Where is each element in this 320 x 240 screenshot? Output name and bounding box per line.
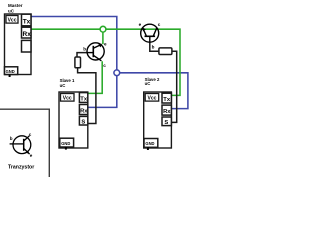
- svg-text:Rx: Rx: [23, 31, 32, 38]
- wire blue main: [31, 17, 117, 108]
- svg-text:GND: GND: [6, 69, 15, 74]
- svg-text:e: e: [139, 22, 142, 27]
- node: blue junction: [114, 70, 120, 76]
- pin Tx slave1: [79, 93, 87, 103]
- transistor Q2 (right NPN, rotated): [141, 24, 159, 42]
- svg-text:Master: Master: [8, 3, 23, 8]
- svg-text:Vcc: Vcc: [148, 96, 157, 102]
- svg-text:e: e: [104, 42, 107, 47]
- pin Vcc slave2: [145, 94, 159, 102]
- svg-text:GND: GND: [145, 141, 154, 146]
- pin S slave1: [79, 116, 87, 125]
- svg-text:Vcc: Vcc: [8, 18, 17, 24]
- svg-text:Tranzystor: Tranzystor: [8, 164, 34, 170]
- svg-text:e: e: [30, 153, 33, 158]
- pin GND slave1: [60, 138, 74, 147]
- Slave 2 uC box: [144, 92, 172, 148]
- wire: blue bus Tx of master to slave Rx pins: [31, 17, 188, 109]
- svg-text:b: b: [83, 46, 86, 51]
- wire: green bus Rx of master / transistor collectors: [31, 29, 180, 95]
- pin GND master: [5, 67, 18, 75]
- svg-text:Vcc: Vcc: [63, 96, 72, 102]
- svg-text:S: S: [81, 119, 85, 125]
- pin Tx slave2: [162, 93, 171, 103]
- pin Vcc slave1: [61, 94, 75, 102]
- pin Tx master: [22, 14, 32, 26]
- node: green junction: [100, 26, 106, 32]
- gnd stub master: [9, 75, 11, 78]
- pin Vcc master: [6, 16, 18, 24]
- transistor Q3 (legend NPN): [10, 136, 31, 154]
- gnd stub slave2: [147, 147, 149, 150]
- wire blue branch to slave 2: [117, 73, 188, 109]
- pin S slave2: [162, 117, 171, 126]
- svg-text:c: c: [103, 63, 106, 68]
- svg-text:Tx: Tx: [23, 19, 31, 26]
- transistor Q1 (middle NPN): [87, 43, 104, 61]
- svg-text:uC: uC: [145, 81, 151, 86]
- svg-text:Rx: Rx: [80, 109, 88, 115]
- legend box: [0, 109, 49, 177]
- svg-text:uC: uC: [60, 83, 66, 88]
- svg-text:S: S: [164, 120, 168, 126]
- wire green main master Rx through Q2 to slave2 Tx: [31, 29, 180, 95]
- svg-text:c: c: [158, 22, 161, 27]
- pin Rx master: [22, 27, 32, 38]
- svg-text:b: b: [10, 136, 13, 141]
- svg-text:Rx: Rx: [163, 109, 171, 115]
- pin GND slave2: [144, 139, 158, 148]
- Slave 1 uC box: [59, 92, 88, 148]
- wire: black base network of Q1 (resistor R1 to S pin slave1): [77, 53, 96, 124]
- gnd stub slave1: [65, 147, 67, 150]
- Master uC box: [5, 14, 32, 75]
- svg-text:Tx: Tx: [163, 97, 171, 103]
- wire: black base network of Q2 (resistor R2 to S pin slave2): [150, 42, 177, 122]
- pin Rx slave2: [162, 105, 171, 115]
- svg-text:c: c: [29, 132, 32, 137]
- svg-text:GND: GND: [61, 141, 70, 146]
- wire green node drop to Q1 emitter: [102, 29, 104, 44]
- svg-text:uC: uC: [8, 9, 15, 14]
- pin Rx slave1: [79, 105, 87, 115]
- svg-text:Tx: Tx: [80, 97, 88, 103]
- resistor R1: [75, 57, 81, 68]
- pin empty master: [22, 40, 32, 52]
- resistor R2: [159, 48, 172, 55]
- wire green Q1 collector to slave1 Tx: [88, 61, 102, 93]
- svg-text:b: b: [152, 44, 155, 49]
